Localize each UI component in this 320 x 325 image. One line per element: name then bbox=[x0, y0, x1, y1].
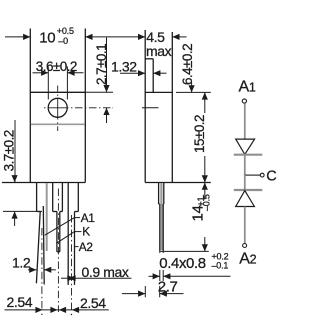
dimension "4.5 max" bbox=[172, 36, 186, 38]
leg2 shoulder bbox=[53, 183, 63, 212]
svg-text:A1: A1 bbox=[81, 211, 95, 225]
svg-text:+0.5: +0.5 bbox=[57, 26, 74, 36]
leg3 narrow lead bbox=[74, 212, 76, 285]
dimension "2.7" (tab to lead) bbox=[122, 286, 184, 297]
schematic: D1 cathode bar bbox=[234, 154, 262, 156]
schematic: terminal A2 bbox=[243, 244, 247, 248]
schematic: diode D1 (A1 to C) bbox=[236, 139, 255, 154]
dimension "15±0.2" bbox=[176, 92, 211, 182]
leg1 gray band bbox=[46, 183, 48, 251]
side view leg bbox=[159, 182, 164, 251]
leg1 shoulder bbox=[37, 183, 41, 212]
leg2 centerline bbox=[57, 189, 59, 313]
svg-text:–0: –0 bbox=[58, 36, 68, 46]
svg-text:A2: A2 bbox=[79, 240, 93, 254]
side view body bbox=[145, 32, 211, 183]
dimension "6.4±0.2" bbox=[191, 59, 193, 93]
schematic: wire A1 to diode 1 bbox=[244, 103, 246, 139]
svg-text:K: K bbox=[82, 224, 90, 238]
hole centerline vertical bbox=[57, 86, 59, 132]
side view tab bbox=[145, 30, 153, 183]
dimension "2.7±0.1" (hole position) bbox=[85, 38, 113, 124]
svg-text:–0.5: –0.5 bbox=[202, 194, 212, 211]
side view hole mark bbox=[142, 107, 159, 109]
svg-text:2.54: 2.54 bbox=[7, 294, 33, 310]
front view body outline bbox=[2, 29, 85, 183]
dimension "3.6±0.2" bbox=[33, 67, 84, 100]
svg-text:15±0.2: 15±0.2 bbox=[192, 115, 207, 153]
svg-text:6.4±0.2: 6.4±0.2 bbox=[180, 44, 195, 85]
dimension "3.7±0.2" bbox=[3, 120, 42, 226]
svg-text:A1: A1 bbox=[239, 78, 256, 95]
svg-text:0.9 max: 0.9 max bbox=[82, 264, 129, 280]
leg1 centerline bbox=[41, 228, 43, 310]
front view tab/body boundary (gray) bbox=[31, 123, 85, 125]
dimension "1.2" (lead width A1) bbox=[28, 269, 56, 271]
shared dimension line 10 right / 4.5 left bbox=[85, 36, 145, 38]
dimension "0.9 max" (lead width A2) bbox=[61, 277, 132, 279]
schematic: diode D2 (A2 to C) bbox=[236, 191, 255, 207]
svg-text:10: 10 bbox=[39, 30, 55, 47]
svg-text:3.6±0.2: 3.6±0.2 bbox=[36, 59, 77, 74]
side view leg gray band bbox=[160, 183, 162, 250]
dimension "1.32" (tab thickness) bbox=[120, 72, 167, 74]
mounting hole bbox=[48, 98, 67, 117]
dimension "2.54 / 2.54" lead pitch bbox=[5, 309, 109, 311]
schematic: wire node C to D2 bbox=[244, 175, 246, 190]
svg-text:C: C bbox=[266, 169, 276, 185]
leg2 narrow lead (cut short) bbox=[57, 212, 60, 252]
leg3 shoulder bbox=[68, 183, 78, 285]
svg-text:A2: A2 bbox=[239, 251, 256, 268]
svg-text:2.7±0.1: 2.7±0.1 bbox=[94, 44, 109, 85]
svg-text:3.7±0.2: 3.7±0.2 bbox=[2, 130, 17, 171]
svg-text:2.7: 2.7 bbox=[158, 278, 178, 295]
dimension "10 +0.5/-0" bbox=[5, 36, 30, 38]
hole centerline horizontal bbox=[44, 107, 113, 109]
svg-text:max: max bbox=[146, 43, 172, 59]
pin label A1 with leader bbox=[45, 218, 80, 236]
schematic: wire D1 to node C bbox=[244, 156, 246, 176]
svg-text:–0.1: –0.1 bbox=[212, 261, 229, 271]
svg-text:1.32: 1.32 bbox=[111, 59, 137, 75]
pin label K with leader bbox=[56, 232, 81, 244]
schematic: D2 cathode bar bbox=[234, 189, 262, 191]
svg-text:2.54: 2.54 bbox=[80, 295, 106, 311]
leg1 narrow lead bbox=[36, 206, 44, 285]
schematic: node C stub and terminal bbox=[245, 174, 260, 176]
dimension "14 +1/-0.5" bbox=[160, 183, 208, 252]
schematic: wire D2 to A2 bbox=[244, 207, 246, 244]
svg-text:0.4x0.8: 0.4x0.8 bbox=[159, 255, 205, 272]
leg3 centerline bbox=[71, 215, 73, 310]
dimension "0.4x0.8 +0.2/-0.1" lead section bbox=[149, 251, 231, 281]
svg-text:1.2: 1.2 bbox=[12, 255, 31, 271]
pin label A2 with leader bbox=[75, 246, 79, 248]
